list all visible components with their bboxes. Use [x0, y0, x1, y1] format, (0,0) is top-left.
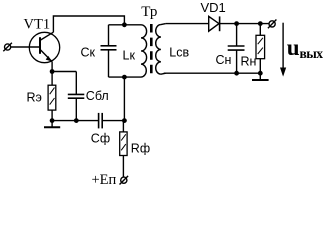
wire input to base [11, 46, 40, 48]
capacitor Ck [101, 25, 117, 77]
svg-text:Ск: Ск [81, 46, 96, 60]
wire tank top rail [109, 24, 142, 26]
wire tank bottom down to supply node [123, 77, 125, 121]
wire collector to tank top [53, 16, 124, 32]
label u vyx [287, 35, 323, 61]
junction ground node left [50, 118, 55, 123]
wire diode to output terminal [220, 23, 269, 25]
output terminal [268, 20, 277, 29]
svg-text:+Еп: +Еп [92, 172, 117, 188]
capacitor Cn [228, 24, 245, 74]
svg-text:Rэ: Rэ [27, 91, 42, 105]
svg-text:VT1: VT1 [24, 17, 51, 33]
svg-text:Сф: Сф [91, 132, 110, 146]
svg-text:Lсв: Lсв [169, 46, 189, 60]
junction tank bottom [122, 75, 127, 80]
junction supply node [122, 118, 127, 123]
wire emitter down [51, 62, 53, 85]
svg-text:Lк: Lк [123, 49, 136, 63]
ground left [44, 121, 60, 128]
wire tank bottom rail [109, 76, 142, 78]
svg-text:Тр: Тр [141, 4, 157, 20]
resistor Re [48, 85, 56, 120]
junction Rn top [258, 21, 263, 26]
diode VD1 [209, 16, 220, 31]
supply terminal [120, 176, 129, 185]
wire emitter node to Cbl [52, 71, 76, 73]
svg-text:Сн: Сн [216, 53, 232, 67]
output arrow [280, 23, 286, 77]
ground right [252, 73, 269, 80]
inductor Lsv [156, 24, 166, 75]
wire bottom left rail [52, 120, 99, 122]
svg-text:u: u [287, 35, 300, 60]
junction Rn bottom [258, 71, 263, 76]
junction Cbl bottom [74, 118, 79, 123]
junction Cn bottom [234, 71, 239, 76]
input terminal [3, 43, 12, 52]
wire bottom rail right [164, 72, 261, 74]
junction emitter node [50, 69, 55, 74]
wire Lsv top to diode [166, 23, 209, 25]
svg-text:Rн: Rн [241, 55, 257, 69]
resistor Rn [256, 24, 265, 74]
junction Cn top [234, 21, 239, 26]
svg-text:Rф: Rф [131, 141, 150, 155]
transformer core [150, 24, 153, 74]
capacitor Cbl [68, 72, 85, 121]
svg-text:вых: вых [300, 46, 324, 61]
capacitor Cf [99, 113, 125, 128]
transistor VT1 [29, 32, 59, 62]
inductor Lk [141, 25, 147, 77]
junction tank top [122, 22, 127, 27]
svg-text:Сбл: Сбл [86, 89, 109, 103]
resistor Rf [120, 121, 127, 177]
svg-text:VD1: VD1 [201, 0, 226, 15]
